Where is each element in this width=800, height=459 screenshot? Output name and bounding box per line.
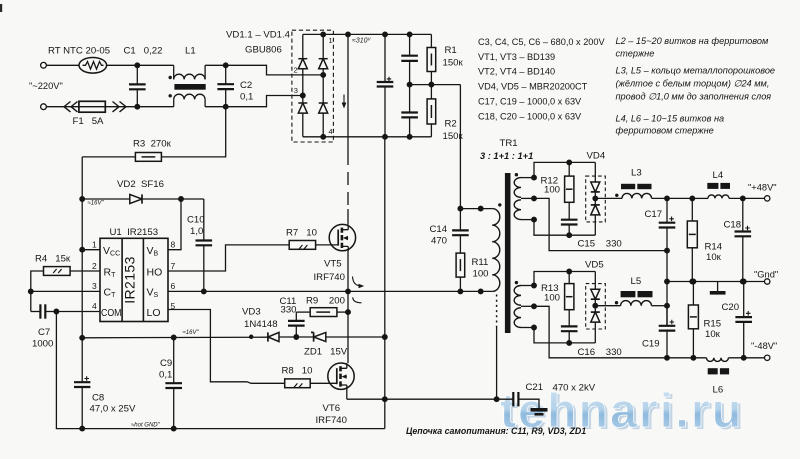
svg-text:3: 3	[294, 86, 298, 95]
svg-text:C1 0,22: C1 0,22	[124, 46, 163, 57]
wire L4 to +48V terminal	[729, 197, 765, 199]
node C17 return	[665, 248, 670, 253]
svg-text:L5: L5	[631, 276, 642, 287]
svg-text:L4: L4	[713, 170, 724, 181]
svg-text:VD4: VD4	[587, 151, 606, 162]
input terminal N	[41, 104, 47, 110]
wire VD5 to L5	[595, 305, 620, 307]
capacitor C8 47,0x25V	[74, 376, 136, 428]
node primary bottom end	[478, 289, 483, 294]
svg-text:470 x 2kV: 470 x 2kV	[553, 383, 596, 394]
node R4 Ct	[29, 289, 34, 294]
input terminal L	[41, 62, 47, 68]
node Vcc VD2 anode	[80, 197, 85, 202]
svg-text:(жёлтое с белым торцом) ∅24 мм: (жёлтое с белым торцом) ∅24 мм,	[616, 79, 770, 89]
inductor L6	[707, 358, 730, 396]
svg-text:VD2 SF16: VD2 SF16	[117, 179, 164, 190]
current loop arrow upper	[353, 277, 365, 289]
svg-text:"~220V": "~220V"	[29, 81, 63, 91]
diode VD2 SF16	[82, 179, 204, 204]
parts list note	[478, 37, 606, 122]
node C8 gnd	[80, 426, 85, 431]
node C1 bottom	[135, 104, 140, 109]
node C19 -48 rail	[665, 356, 670, 361]
capacitor C20	[722, 279, 753, 358]
bridge rectifier VD1.1-VD1.4 GBU806	[226, 30, 333, 143]
wire sec2 top tap	[521, 272, 595, 288]
svg-text:"Gnd": "Gnd"	[754, 270, 778, 280]
wire sec2 bottom tap	[521, 325, 595, 343]
wire sec1 top tap	[521, 162, 595, 180]
svg-text:VT6: VT6	[323, 403, 341, 414]
svg-text:C20: C20	[722, 302, 740, 313]
transistor VT5 IRF740	[314, 224, 356, 283]
wire R3 to Vcc node	[81, 157, 83, 199]
terminal Gnd	[754, 270, 778, 285]
diode VD1.2	[319, 59, 328, 69]
scan edge artifact	[0, 4, 2, 12]
node R9 midpoint	[346, 310, 351, 315]
svg-text:1: 1	[329, 36, 333, 45]
resistor R13 100	[541, 269, 574, 326]
wire VT5 drain lower	[347, 209, 349, 225]
svg-text:L3: L3	[631, 168, 642, 179]
capacitor C21 470x2kV	[497, 382, 596, 408]
resistor R9 200	[296, 296, 348, 317]
node C10 to Vs line	[202, 289, 207, 294]
resistor R7 10	[286, 228, 338, 250]
node R14 top	[690, 196, 695, 201]
svg-text:F1 5A: F1 5A	[73, 116, 105, 127]
resistor R15 10k	[688, 279, 721, 358]
svg-text:Цепочка самопитания: C11, R9,: Цепочка самопитания: C11, R9, VD3, ZD1	[406, 426, 586, 436]
wire L3 to +48 node	[652, 197, 693, 199]
transformer TR1 secondary lower winding	[514, 281, 521, 328]
wire L1 to C2 node top	[205, 64, 226, 66]
inductor L4	[707, 170, 730, 198]
node VD4 common cathode	[593, 196, 598, 201]
svg-text:VT2, VT4 – BD140: VT2, VT4 – BD140	[478, 67, 555, 77]
svg-text:7: 7	[171, 261, 176, 271]
svg-text:10к: 10к	[705, 329, 721, 340]
svg-text:0,1: 0,1	[159, 370, 172, 381]
node C20 bottom	[741, 356, 746, 361]
svg-text:C18, C20 – 1000,0 x 63V: C18, C20 – 1000,0 x 63V	[478, 112, 582, 122]
svg-text:1: 1	[92, 240, 97, 250]
svg-text:0,1: 0,1	[240, 92, 253, 103]
svg-text:10к: 10к	[706, 252, 722, 263]
svg-text:VD4, VD5 – MBR20200CT: VD4, VD5 – MBR20200CT	[478, 82, 588, 92]
svg-text:47,0 x 25V: 47,0 x 25V	[90, 404, 136, 415]
terminal -48V	[751, 341, 777, 360]
resistor R3 270k	[82, 107, 226, 162]
wire pin3 Ct	[31, 290, 100, 292]
wire screen dashed	[496, 295, 498, 328]
capacitor C1	[124, 46, 163, 107]
svg-text:IRF740: IRF740	[316, 415, 347, 426]
wire L5 to gnd node	[652, 305, 668, 307]
wire +48 rail to L4	[692, 197, 708, 199]
wire Vcc vertical	[81, 199, 83, 338]
capacitor C15 330	[561, 220, 622, 250]
svg-text:IRF740: IRF740	[314, 272, 345, 283]
wire gnd vertical	[666, 251, 668, 326]
wire pin5 LO to R8	[168, 310, 285, 384]
svg-text:470: 470	[431, 236, 447, 247]
connector arrows right	[113, 102, 127, 112]
dual diode VD5 MBR20200CT	[585, 260, 605, 343]
wire pin1 stub	[82, 249, 100, 251]
diode VD1.4	[319, 103, 328, 113]
node Vb riser	[179, 197, 184, 202]
current loop arrow lower	[353, 297, 362, 303]
svg-text:L2 – 15~20 витков на ферритово: L2 – 15~20 витков на ферритовом	[616, 36, 769, 46]
node R14 gnd	[690, 279, 695, 284]
svg-text:C10: C10	[187, 215, 205, 226]
node bridge plus	[321, 32, 326, 37]
node C9 top	[171, 335, 176, 340]
common-mode choke L1	[169, 46, 206, 107]
svg-text:TR1: TR1	[500, 138, 518, 149]
inductor L5	[615, 276, 653, 306]
wire 16V rail	[82, 336, 268, 339]
svg-text:R3 270к: R3 270к	[133, 139, 172, 150]
node C4 top	[407, 32, 412, 37]
wire COM down to gnd rail	[56, 312, 384, 429]
node C2 bottom	[223, 104, 228, 109]
svg-text:L3, L5 – кольцо металлопорошко: L3, L5 – кольцо металлопорошковое	[616, 66, 776, 76]
svg-text:4: 4	[329, 127, 333, 136]
resistor R14 10k	[687, 198, 722, 281]
resistor R12 100	[541, 160, 574, 220]
wire VT6 source down	[346, 390, 348, 400]
node cap divider mid	[407, 82, 412, 87]
node C3 bottom	[383, 135, 388, 140]
inductor L3	[615, 168, 651, 199]
wire L6 to -48V terminal	[728, 357, 764, 359]
wire fuse to L1	[137, 106, 173, 108]
transistor VT6 IRF740	[316, 363, 355, 426]
svg-text:3 : 1+1 : 1+1: 3 : 1+1 : 1+1	[480, 151, 533, 161]
inductor winding notes	[616, 36, 776, 136]
svg-text:C14: C14	[430, 224, 448, 235]
node VT5 drain on rail	[346, 32, 351, 37]
svg-text:LO: LO	[147, 307, 161, 319]
node L5 gnd vertical	[665, 303, 670, 308]
bridge bottom tie wire	[303, 136, 323, 138]
svg-text:VT1, VT3 – BD139: VT1, VT3 – BD139	[478, 52, 555, 62]
watermark tehnari.ru	[500, 385, 746, 440]
svg-text:VT5: VT5	[324, 259, 342, 270]
svg-text:VD5: VD5	[585, 260, 604, 271]
svg-text:IR2153: IR2153	[121, 256, 137, 304]
svg-text:R7 10: R7 10	[286, 228, 317, 239]
node stray on 16V rail	[250, 335, 253, 338]
wire gnd rail	[667, 281, 765, 283]
ground earth symbol	[531, 408, 548, 416]
svg-text:R2: R2	[445, 119, 457, 130]
svg-text:C18: C18	[724, 220, 742, 231]
node C3 top	[383, 32, 388, 37]
svg-text:C15 330: C15 330	[578, 239, 622, 250]
svg-text:≈16V": ≈16V"	[88, 201, 105, 207]
wire C1 node to L1	[137, 64, 173, 66]
svg-text:2: 2	[92, 261, 97, 271]
node gnd rail	[665, 279, 670, 284]
transformer TR1 core	[505, 173, 511, 333]
node C7 COM	[54, 309, 59, 314]
svg-text:R1: R1	[445, 45, 457, 56]
svg-text:стержне: стержне	[616, 49, 655, 59]
bridge left column wire	[302, 34, 304, 136]
wire screen solid	[496, 327, 498, 399]
node primary top snubber	[458, 206, 463, 211]
node Vcc 16V rail	[80, 336, 85, 341]
svg-text:R8 10: R8 10	[282, 366, 313, 377]
wire Vcc to C8	[81, 338, 83, 382]
op-amp U1 IR2153	[100, 227, 168, 322]
bridge right column wire	[322, 34, 324, 136]
capacitor C10	[187, 199, 212, 291]
wire sec1 bottom tap	[521, 217, 595, 235]
node C18 gnd	[741, 279, 746, 284]
diode VD1.3	[298, 103, 307, 113]
wire midpoint to VT6 drain	[347, 291, 349, 363]
capacitor C19	[642, 306, 675, 358]
terminal +48V	[748, 183, 777, 202]
transformer TR1 primary winding	[480, 138, 533, 291]
svg-text:HO: HO	[147, 267, 163, 279]
resistor R2 150k	[427, 85, 463, 142]
svg-text:8: 8	[171, 240, 176, 250]
svg-text:100: 100	[473, 269, 489, 280]
node C1 top	[135, 63, 140, 68]
wire Vs midpoint line	[168, 290, 492, 292]
wire VT5 drain dashed part	[347, 152, 349, 209]
capacitor C17	[645, 198, 676, 250]
node R1 R2 mid	[429, 82, 434, 87]
node screen line	[494, 397, 499, 402]
svg-text:"-48V": "-48V"	[751, 341, 777, 351]
svg-text:провод ∅1,0 мм до заполнения с: провод ∅1,0 мм до заполнения слоя	[616, 92, 772, 102]
wire +310V rail	[323, 33, 431, 35]
node R15 -48 rail	[691, 356, 696, 361]
svg-text:C19: C19	[642, 339, 660, 350]
svg-text:C2: C2	[240, 80, 252, 91]
svg-text:4: 4	[92, 301, 97, 311]
connector arrows left	[64, 102, 78, 112]
wire negative rail	[323, 136, 431, 138]
svg-text:R11: R11	[472, 257, 489, 268]
svg-text:1,0: 1,0	[190, 226, 203, 237]
node C18 top	[741, 196, 746, 201]
svg-text:R14: R14	[705, 242, 723, 253]
svg-text:U1 IR2153: U1 IR2153	[110, 227, 159, 238]
capacitor C14 470	[430, 209, 469, 254]
capacitor C6	[401, 85, 418, 137]
diode VD3 1N4148	[242, 307, 296, 342]
wire negative bus lower	[384, 337, 386, 429]
node C6 bottom	[407, 135, 412, 140]
svg-text:3: 3	[92, 281, 97, 291]
svg-text:100: 100	[544, 185, 560, 196]
node C9 gnd	[171, 426, 176, 431]
wire L1 to C2 node bottom	[205, 106, 226, 108]
capacitor C4	[401, 34, 418, 84]
svg-text:C7: C7	[38, 327, 50, 338]
capacitor C18	[724, 198, 752, 281]
node bridge ac3	[301, 93, 306, 98]
wire RT to C1 node	[107, 64, 138, 66]
svg-text:≈hot GND": ≈hot GND"	[131, 423, 161, 429]
svg-text:R9 200: R9 200	[306, 296, 345, 307]
resistor R11 100	[456, 253, 488, 291]
diode VD1.1	[298, 59, 307, 69]
svg-text:C16 330: C16 330	[578, 347, 622, 358]
svg-text:150к: 150к	[443, 58, 464, 69]
node C11 bottom	[294, 335, 299, 340]
capacitor C16 330	[561, 326, 622, 358]
capacitor C11 330	[280, 296, 305, 337]
wire -48 rail left	[667, 357, 707, 359]
svg-text:C17, C19 – 1000,0 x 63V: C17, C19 – 1000,0 x 63V	[478, 97, 582, 107]
svg-text:C3, C4, C5, C6 – 680,0 x 200V: C3, C4, C5, C6 – 680,0 x 200V	[478, 37, 606, 47]
wire C2 to bridge ac1 with jog	[226, 65, 324, 75]
node C17 top	[665, 196, 670, 201]
node ZD1 negative bus	[383, 335, 388, 340]
svg-text:C21: C21	[526, 382, 544, 393]
transformer TR1 secondary upper winding	[514, 173, 521, 220]
wire Vb riser	[168, 199, 181, 250]
svg-text:1N4148: 1N4148	[244, 319, 278, 330]
resistor R4 15k	[31, 254, 100, 292]
wire pin7 HO to R7	[168, 245, 289, 271]
svg-text:L1: L1	[185, 46, 196, 57]
svg-text:L6: L6	[713, 385, 724, 396]
svg-text:C17: C17	[645, 209, 663, 220]
node source negative bus	[383, 397, 388, 402]
dual diode VD4 MBR20200CT	[586, 151, 606, 236]
capacitor C2	[217, 65, 253, 106]
wire divider mid	[410, 84, 461, 86]
svg-text:6: 6	[171, 281, 176, 291]
wire sec1 center tap	[521, 196, 667, 251]
wire N terminal to fuse	[46, 106, 137, 108]
wire terminal to RT	[46, 64, 79, 66]
svg-text:COM: COM	[101, 307, 122, 319]
node R11 midpoint	[458, 289, 463, 294]
wire Ct down to C7	[30, 291, 32, 311]
node primary top end	[478, 206, 483, 211]
svg-text:VD1.1 – VD1.4: VD1.1 – VD1.4	[226, 30, 291, 41]
resistor R1 150k	[427, 34, 463, 84]
ground symbol on rail	[710, 282, 726, 295]
wire VT6 source line	[347, 398, 497, 400]
fuse F1 5A	[73, 101, 106, 127]
svg-text:2: 2	[294, 66, 298, 75]
svg-text:≈16V": ≈16V"	[183, 330, 200, 336]
node C2 top	[223, 63, 228, 68]
svg-text:GBU806: GBU806	[245, 45, 282, 56]
wire divider mid to primary top	[459, 85, 461, 209]
svg-text:ферритовом стержне: ферритовом стержне	[616, 126, 714, 136]
svg-text:C9: C9	[160, 358, 172, 369]
svg-text:C8: C8	[92, 393, 104, 404]
wire negative bus	[384, 137, 386, 337]
node bridge minus	[321, 135, 326, 140]
svg-text:ZD1 15V: ZD1 15V	[304, 347, 348, 358]
wire VD4 to L3	[595, 197, 622, 199]
svg-text:L4, L6 – 10~15 витков на: L4, L6 – 10~15 витков на	[616, 114, 725, 124]
capacitor C7 1000	[31, 304, 57, 349]
bridge top tie wire	[303, 33, 323, 35]
capacitor C9 0,1	[159, 338, 182, 429]
wire sec2 center tap	[521, 304, 667, 358]
wire VT5 drain upper	[347, 34, 349, 152]
svg-text:R4 15к: R4 15к	[35, 254, 71, 265]
node pin1	[80, 247, 85, 252]
svg-text:VD3: VD3	[242, 307, 261, 318]
current arrow down	[342, 95, 347, 109]
svg-text:100: 100	[544, 293, 560, 304]
svg-text:330: 330	[281, 305, 297, 316]
svg-text:"+48V": "+48V"	[748, 183, 777, 193]
resistor R8 10	[282, 366, 337, 388]
thermistor RT NTC 20-05	[48, 46, 110, 74]
svg-text:1000: 1000	[32, 339, 53, 350]
node bridge ac2	[321, 73, 326, 78]
wire VT5 source	[347, 251, 349, 292]
wire pin4 COM	[56, 311, 100, 313]
wire C2 to bridge ac2 with jog	[226, 96, 303, 107]
svg-text:RT NTC 20-05: RT NTC 20-05	[48, 46, 110, 57]
wire primary top	[460, 208, 492, 210]
zener ZD1 15V	[296, 332, 385, 357]
svg-text:R15: R15	[704, 319, 722, 330]
node VD5 common cathode	[593, 303, 598, 308]
capacitor C3	[377, 34, 394, 136]
node VT5 source midpoint	[346, 289, 351, 294]
